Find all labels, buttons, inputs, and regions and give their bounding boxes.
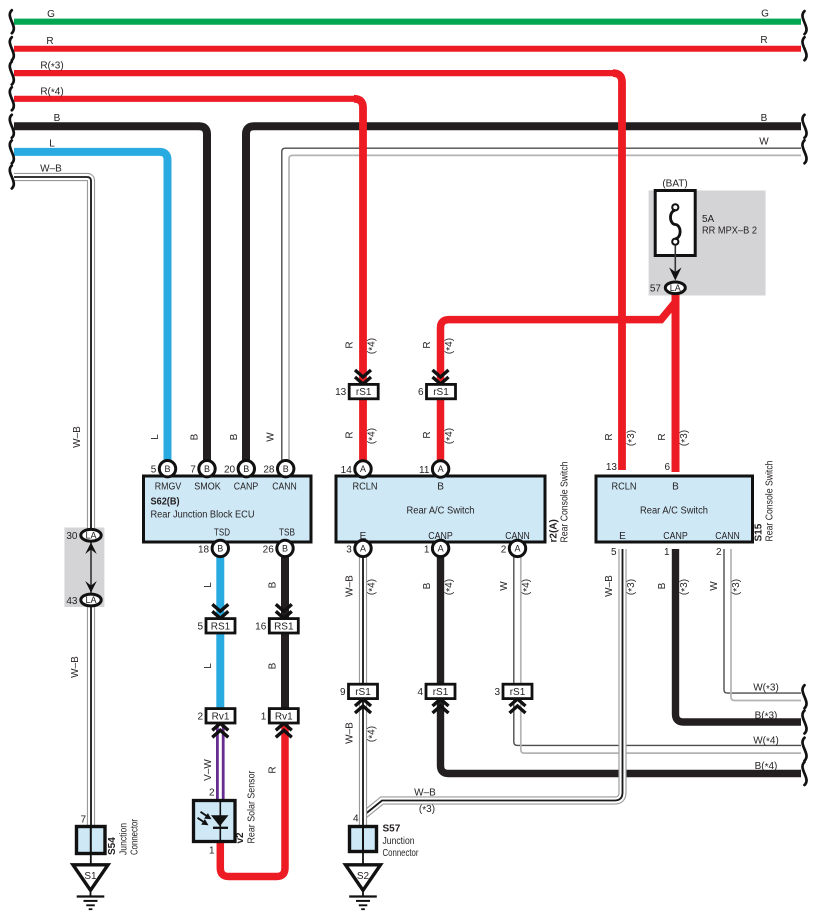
svg-text:B: B xyxy=(422,582,433,589)
svg-text:W–B: W–B xyxy=(72,426,83,448)
svg-text:B: B xyxy=(243,464,249,474)
svg-text:Junction: Junction xyxy=(119,823,130,855)
junction link LA30-LA43 xyxy=(90,541,92,594)
svg-text:16: 16 xyxy=(255,621,267,632)
wire B TSB to Rv1-1 xyxy=(281,548,289,716)
fuse element xyxy=(672,204,678,210)
svg-text:B: B xyxy=(190,433,201,440)
svg-text:B: B xyxy=(268,581,279,588)
svg-text:R: R xyxy=(760,35,767,46)
svg-text:(*4): (*4) xyxy=(367,579,379,595)
ECU pin 5 circle xyxy=(159,461,175,477)
wire B bus right from ECU pin20 xyxy=(246,126,801,463)
svg-text:R: R xyxy=(345,431,356,438)
wire R bus xyxy=(14,46,801,52)
ECU pin 20 circle xyxy=(238,461,254,477)
wire W-B bus to junction LA30 xyxy=(14,177,91,533)
arrow into LA30 xyxy=(85,543,97,555)
wire S57 to S2 xyxy=(362,852,364,867)
wire B(*4) from r2A CANP xyxy=(441,549,802,774)
wire L TSD to Rv1-2 xyxy=(216,548,224,716)
svg-text:(*3): (*3) xyxy=(419,804,435,816)
svg-text:R(*3): R(*3) xyxy=(40,61,63,73)
connector rS1 pin13 xyxy=(349,384,378,398)
svg-text:B: B xyxy=(437,482,444,493)
connector Rv1 pin1 xyxy=(269,709,298,723)
svg-text:Rear A/C Switch: Rear A/C Switch xyxy=(640,506,708,517)
svg-text:L: L xyxy=(150,434,161,440)
arrow into Rv1-1 xyxy=(276,723,292,730)
svg-text:R(*4): R(*4) xyxy=(40,86,63,98)
wire W(*3) from S15 CANN (light line) xyxy=(731,549,801,701)
wire B(*3) from S15 CANP xyxy=(676,549,802,722)
svg-text:rS1: rS1 xyxy=(356,387,372,398)
svg-text:W–B: W–B xyxy=(604,575,615,597)
svg-text:18: 18 xyxy=(198,544,210,555)
svg-text:Junction: Junction xyxy=(383,836,415,847)
connector LA pin30 xyxy=(81,529,101,541)
junction LA panel (gray) xyxy=(64,528,104,608)
svg-text:Rear Junction Block ECU: Rear Junction Block ECU xyxy=(151,510,255,521)
svg-text:S2: S2 xyxy=(357,871,370,882)
svg-text:B: B xyxy=(282,544,288,554)
arrow into rS1-13 xyxy=(355,377,371,384)
svg-text:S1: S1 xyxy=(84,871,97,882)
block S62(B) Rear Junction Block ECU xyxy=(144,476,312,542)
svg-text:7: 7 xyxy=(80,815,86,826)
svg-text:rS1: rS1 xyxy=(510,687,526,698)
ground S2 xyxy=(346,865,381,891)
connector LA pin43 xyxy=(81,594,101,606)
svg-text:3: 3 xyxy=(494,687,500,698)
svg-text:r2(A): r2(A) xyxy=(549,519,560,542)
svg-text:B: B xyxy=(164,464,170,474)
wire R from fuse LA57 to S15 pin6 xyxy=(672,293,680,472)
svg-text:(*4): (*4) xyxy=(367,428,379,444)
svg-text:S54: S54 xyxy=(107,837,118,855)
svg-text:(*3): (*3) xyxy=(679,579,691,595)
svg-text:Rear Solar Sensor: Rear Solar Sensor xyxy=(247,770,258,844)
svg-text:A: A xyxy=(438,544,444,554)
wire R solar sensor pin1 to Rv1-1 xyxy=(220,714,285,877)
svg-text:6: 6 xyxy=(418,387,424,398)
block S15 Rear A/C Switch (right) xyxy=(596,476,753,542)
svg-text:R: R xyxy=(345,341,356,348)
svg-text:(*4): (*4) xyxy=(367,338,379,354)
svg-text:2: 2 xyxy=(197,711,203,722)
svg-text:9: 9 xyxy=(340,687,346,698)
svg-text:L: L xyxy=(203,663,214,669)
svg-text:B: B xyxy=(283,464,289,474)
wire G bus xyxy=(14,19,801,25)
svg-text:W(*4): W(*4) xyxy=(753,735,779,747)
svg-text:B: B xyxy=(657,582,668,589)
svg-text:rS1: rS1 xyxy=(433,387,449,398)
svg-text:(*4): (*4) xyxy=(367,726,379,742)
svg-text:TSD: TSD xyxy=(214,528,230,539)
svg-text:W(*3): W(*3) xyxy=(753,683,779,695)
wire R branch LA57 to rS1-6 / middle pin11 xyxy=(441,302,676,466)
svg-text:B: B xyxy=(204,464,210,474)
svg-text:5: 5 xyxy=(197,621,203,632)
svg-text:5: 5 xyxy=(151,465,157,476)
svg-text:1: 1 xyxy=(664,547,670,558)
svg-text:A: A xyxy=(360,464,366,474)
svg-text:CANN: CANN xyxy=(272,482,297,493)
svg-text:(*4): (*4) xyxy=(444,428,456,444)
svg-text:11: 11 xyxy=(419,465,430,476)
svg-text:Rear A/C Switch: Rear A/C Switch xyxy=(407,506,475,517)
svg-text:RS1: RS1 xyxy=(274,621,294,632)
svg-text:rS1: rS1 xyxy=(355,687,371,698)
connector RS1 pin16 xyxy=(269,619,298,633)
svg-text:6: 6 xyxy=(664,462,670,473)
svg-text:R: R xyxy=(604,433,615,440)
svg-text:14: 14 xyxy=(341,465,353,476)
svg-text:Rv1: Rv1 xyxy=(212,711,230,722)
svg-text:(*3): (*3) xyxy=(731,579,743,595)
svg-text:Rear Console Switch: Rear Console Switch xyxy=(765,461,776,542)
svg-text:(*3): (*3) xyxy=(626,430,638,446)
svg-text:W–B: W–B xyxy=(345,575,356,597)
junction connector S57 xyxy=(350,827,377,852)
svg-text:5A: 5A xyxy=(702,214,715,225)
svg-text:3: 3 xyxy=(346,544,352,555)
wire W-B(*4) from r2A E to S57 xyxy=(359,549,367,828)
svg-text:B: B xyxy=(229,433,240,440)
svg-text:CANP: CANP xyxy=(663,531,688,542)
svg-text:RR MPX–B 2: RR MPX–B 2 xyxy=(702,226,757,237)
arrow into LA57 xyxy=(669,268,681,281)
svg-text:30: 30 xyxy=(66,531,78,542)
svg-text:RCLN: RCLN xyxy=(612,482,637,493)
svg-text:13: 13 xyxy=(335,387,347,398)
svg-text:7: 7 xyxy=(190,465,196,476)
arrow into RS1-5 xyxy=(212,611,228,618)
wire W-B from LA43 to S54 xyxy=(87,598,95,828)
wire L bus to ECU pin5 xyxy=(14,152,168,463)
svg-text:B: B xyxy=(268,662,279,669)
svg-text:26: 26 xyxy=(263,544,275,555)
svg-text:W–B: W–B xyxy=(414,788,436,799)
arrow into Rv1-2 xyxy=(212,723,228,730)
svg-text:G: G xyxy=(47,9,55,20)
svg-text:RMGV: RMGV xyxy=(155,482,182,493)
svg-text:W–B: W–B xyxy=(40,164,62,175)
svg-text:13: 13 xyxy=(606,462,618,473)
svg-text:2: 2 xyxy=(501,544,507,555)
svg-text:(BAT): (BAT) xyxy=(662,179,687,190)
svg-text:1: 1 xyxy=(424,544,430,555)
wire B bus left to ECU pin7 xyxy=(14,126,207,463)
svg-text:rS1: rS1 xyxy=(433,687,449,698)
svg-text:v2: v2 xyxy=(235,832,246,844)
middle block pin 3 circle xyxy=(355,540,371,556)
junction connector S54 xyxy=(77,827,106,854)
wire V-W Rv1-2 to solar sensor pin2 xyxy=(216,715,225,802)
connector Rv1 pin2 xyxy=(206,709,235,723)
svg-text:L: L xyxy=(203,582,214,588)
svg-text:W: W xyxy=(759,137,769,148)
wire W(*4) from r2A CANN (light line) xyxy=(521,553,801,753)
svg-text:E: E xyxy=(619,531,626,542)
svg-text:CANN: CANN xyxy=(715,531,740,542)
svg-text:R: R xyxy=(422,431,433,438)
svg-text:TSB: TSB xyxy=(279,528,295,539)
svg-text:2: 2 xyxy=(209,788,215,799)
svg-text:B: B xyxy=(217,544,223,554)
svg-text:(*4): (*4) xyxy=(521,579,533,595)
svg-text:A: A xyxy=(438,464,444,474)
ground S1 xyxy=(73,865,108,891)
svg-text:W: W xyxy=(266,432,277,442)
svg-text:28: 28 xyxy=(263,465,275,476)
wire W bus to ECU pin28 (light line) xyxy=(289,155,801,462)
svg-text:B(*4): B(*4) xyxy=(755,761,778,773)
connector RS1 pin5 xyxy=(206,619,235,633)
wire W(*3) from S15 CANN (dark line) xyxy=(724,549,801,693)
svg-text:57: 57 xyxy=(650,283,662,294)
left edge continuation squiggles xyxy=(10,10,14,33)
svg-text:LA: LA xyxy=(85,595,96,605)
arrow into rS1-9 xyxy=(355,699,371,706)
right edge continuation squiggles xyxy=(802,11,806,34)
svg-text:W–B: W–B xyxy=(345,722,356,744)
svg-text:20: 20 xyxy=(224,465,236,476)
svg-text:Connector: Connector xyxy=(130,818,141,855)
wire R(*3) bus to S15 pin13 xyxy=(14,70,615,76)
svg-text:R: R xyxy=(46,36,53,47)
svg-text:4: 4 xyxy=(417,687,423,698)
svg-text:B: B xyxy=(54,113,61,124)
svg-text:2: 2 xyxy=(716,547,722,558)
svg-text:S62(B): S62(B) xyxy=(151,497,180,508)
svg-text:B: B xyxy=(761,113,768,124)
svg-text:1: 1 xyxy=(209,846,215,857)
ECU pin 18 circle xyxy=(212,540,228,556)
connector LA pin57 xyxy=(665,282,685,294)
svg-text:(*3): (*3) xyxy=(626,579,638,595)
arrow into LA43 xyxy=(85,581,97,593)
svg-text:W: W xyxy=(499,581,510,591)
svg-text:CANP: CANP xyxy=(234,482,259,493)
ECU pin 26 circle xyxy=(277,540,293,556)
svg-text:1: 1 xyxy=(261,711,267,722)
svg-text:G: G xyxy=(761,9,769,20)
svg-text:V–W: V–W xyxy=(203,759,214,781)
arrow into rS1-3 xyxy=(510,699,526,706)
fuse lead to LA57 xyxy=(674,245,676,279)
svg-text:W–B: W–B xyxy=(70,656,81,678)
svg-text:R: R xyxy=(657,433,668,440)
ECU pin 7 circle xyxy=(199,461,215,477)
svg-text:Rear Console Switch: Rear Console Switch xyxy=(560,462,571,543)
svg-text:S15: S15 xyxy=(754,523,765,541)
solar sensor v2 xyxy=(194,801,236,842)
ECU pin 28 circle xyxy=(278,461,294,477)
svg-text:R: R xyxy=(268,766,279,773)
wire W(*4) from r2A CANN (dark line) xyxy=(514,553,801,745)
svg-text:5: 5 xyxy=(611,547,617,558)
wire W bus to ECU pin28 (dark line) xyxy=(282,148,801,462)
connector rS1 pin4 xyxy=(426,684,455,698)
block r2(A) Rear A/C Switch (middle) xyxy=(336,476,545,542)
middle block pin 1 circle xyxy=(432,540,448,556)
svg-text:R: R xyxy=(422,341,433,348)
middle block pin 11 circle xyxy=(432,461,448,477)
connector rS1 pin9 xyxy=(349,684,378,698)
svg-text:LA: LA xyxy=(85,531,96,541)
connector rS1 pin6 xyxy=(427,384,456,398)
wire R(*4) bus to rS1-13 xyxy=(14,96,356,102)
arrow into rS1-4 xyxy=(433,699,449,706)
arrow into RS1-16 xyxy=(276,611,292,618)
svg-text:(*4): (*4) xyxy=(444,579,456,595)
svg-text:(*4): (*4) xyxy=(444,338,456,354)
svg-text:(*3): (*3) xyxy=(679,430,691,446)
middle block pin 2 circle xyxy=(509,540,525,556)
arrow into rS1-6 xyxy=(433,377,449,384)
svg-text:S57: S57 xyxy=(383,824,401,835)
svg-text:4: 4 xyxy=(353,814,359,825)
svg-text:W: W xyxy=(709,581,720,591)
connector rS1 pin3 xyxy=(503,684,532,698)
fuse box xyxy=(655,191,695,256)
svg-text:Connector: Connector xyxy=(383,848,420,859)
svg-text:RS1: RS1 xyxy=(211,621,231,632)
svg-text:RCLN: RCLN xyxy=(353,482,378,493)
svg-text:Rv1: Rv1 xyxy=(275,711,293,722)
svg-text:B(*3): B(*3) xyxy=(755,711,778,723)
svg-text:B: B xyxy=(672,482,679,493)
svg-text:SMOK: SMOK xyxy=(194,482,221,493)
middle block pin 14 circle xyxy=(355,461,371,477)
wire S54 to S1 xyxy=(90,854,92,867)
svg-text:A: A xyxy=(514,544,520,554)
wire W-B(*3) from S15 E to S57 xyxy=(364,549,623,816)
fuse service panel (gray) xyxy=(649,191,766,296)
svg-text:L: L xyxy=(49,138,55,149)
svg-text:LA: LA xyxy=(670,283,681,293)
svg-text:A: A xyxy=(360,544,366,554)
svg-text:43: 43 xyxy=(66,596,78,607)
